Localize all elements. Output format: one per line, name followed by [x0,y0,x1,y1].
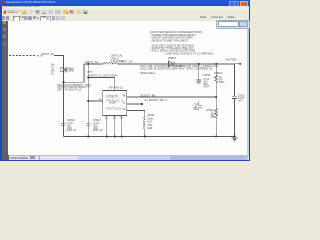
svg-text:INPUT_21_BOOSTER: INPUT_21_BOOSTER [89,74,117,78]
svg-text:G2: G2 [113,118,117,120]
svg-text:- LINE AND LOAD REG AT 1.0 AMP: - LINE AND LOAD REG AT 1.0 AMP MAX [164,52,213,56]
svg-text:+: + [58,119,60,123]
node booster branch [87,77,89,79]
wire y82 [63,64,84,82]
svg-text:2u: 2u [123,102,126,104]
right dark margin [246,21,249,156]
svg-text:1.5KE: 1.5KE [67,70,74,73]
nav icon 2 [3,28,6,31]
offpage connector squiggle [37,55,43,58]
svg-text:+5V(TP5): +5V(TP5) [224,57,236,61]
svg-text:TANT: TANT [203,85,210,88]
svg-text:EFF. TYP 82% AT 1A: EFF. TYP 82% AT 1A [57,89,81,92]
svg-text:D5810: D5810 [168,56,177,60]
wire +5V column [234,64,236,136]
+5V flag [235,63,242,65]
toolbar icons row1 [23,10,28,14]
svg-text:35V: 35V [238,99,243,102]
wire pin2 [127,103,142,105]
nav icon 3 [3,35,6,38]
title bar text [6,1,63,6]
close button [240,1,249,8]
svg-text:2u_BOOST_BK_A: 2u_BOOST_BK_A [144,98,167,102]
node col2 top [87,63,89,65]
right toolbar text buttons [200,15,206,19]
svg-text:U5805: U5805 [106,95,118,99]
node rail B [215,63,217,65]
left window border [0,0,2,161]
minimize button [229,1,235,7]
svg-text:C5618: C5618 [203,73,211,77]
nav icon 1 [3,21,6,24]
capacitor C5618 column [196,64,201,85]
svg-text:G3: G3 [120,118,124,120]
capacitor C5816 [61,123,65,125]
svg-text:FB: FB [123,95,126,97]
svg-text:- DESIGN TO MEET EMI LIMITS: - DESIGN TO MEET EMI LIMITS [150,38,189,42]
toolbar row 2 [2,15,248,22]
wire rail to right [118,63,235,65]
window frame [0,0,250,161]
create button [3,10,22,17]
svg-text:LM257: LM257 [109,102,117,105]
wire left pin [88,100,103,102]
wire dashed input line [9,55,36,57]
svg-text:+: + [82,119,84,123]
svg-text:ATF PINS 2/1: ATF PINS 2/1 [109,87,124,90]
page box [13,16,21,22]
svg-text:BOOST_FB: BOOST_FB [141,93,156,97]
node rail A [198,63,200,65]
capacitor C5812 [232,96,237,98]
maximize button [234,1,240,7]
node junction 60-82 [62,81,64,83]
node left pin [87,100,89,102]
status bar [2,154,248,157]
content background (page) [2,21,248,156]
scrollbar thumb [78,156,170,160]
svg-text:G1: G1 [105,118,109,120]
svg-text:SER: SER [147,127,152,130]
zoom dropdown [40,16,50,22]
svg-text:INPUT_5V: INPUT_5V [119,59,132,63]
op-amp U5805 box [103,91,127,116]
node fb junction [215,96,217,98]
svg-text:ESR .03: ESR .03 [67,129,77,132]
ground symbol [232,138,238,141]
capacitor C5817 [86,123,90,125]
svg-text:50V: 50V [194,108,199,111]
wire pin3 to L5811 [127,110,145,117]
left nav strip [2,21,8,156]
status nav corner [2,155,9,160]
svg-text:SPEC OVERRIDE 2A: SPEC OVERRIDE 2A [186,66,212,70]
schematic svg [0,0,250,166]
svg-text:1/8W: 1/8W [219,81,225,84]
node pin2 end [141,103,143,105]
svg-text:ESR .03: ESR .03 [93,129,103,132]
menu bar [2,6,248,10]
diode D5810 [169,61,175,67]
svg-text:2K: 2K [51,73,54,76]
value labels D5801 column [51,63,55,75]
wire pin1 fb [127,96,216,98]
menu items [3,6,43,9]
svg-text:R5612: R5612 [214,71,222,75]
wire bottom pins [107,116,122,137]
right window border [249,0,250,161]
title bar [0,0,250,6]
wire booster to box top [88,78,115,91]
diode D5801 TVS [61,67,66,73]
bottom window border [0,160,250,161]
svg-text:INPUT_5A: INPUT_5A [85,60,98,64]
find bar [216,20,251,29]
svg-text:1/8W: 1/8W [211,116,217,119]
toolbar row 1 [2,9,248,15]
svg-text:1u: 1u [99,99,102,101]
node bus junctions [87,135,235,137]
inductor L5801 coil [103,63,117,64]
schematic text labels [0,0,250,166]
title bar app icon [2,1,5,4]
nav icon 4 [3,42,6,45]
svg-text:INPUT_20: INPUT_20 [42,52,55,56]
svg-text:Sw: Sw [123,109,127,111]
inductor L5811 coil [144,117,145,136]
wire input to corner [54,56,63,137]
ground bus [63,135,234,137]
wire column2 [87,64,89,136]
svg-text:CRITICAL: CRITICAL [106,106,121,110]
scrollbar right button [245,156,248,160]
capacitor C5F small [198,101,202,111]
resistor R5813 [215,97,218,136]
status text [10,156,28,160]
resistor R5612 [215,64,218,97]
wire rail main [84,63,103,65]
svg-text:NEW LINE A: NEW LINE A [140,71,155,75]
